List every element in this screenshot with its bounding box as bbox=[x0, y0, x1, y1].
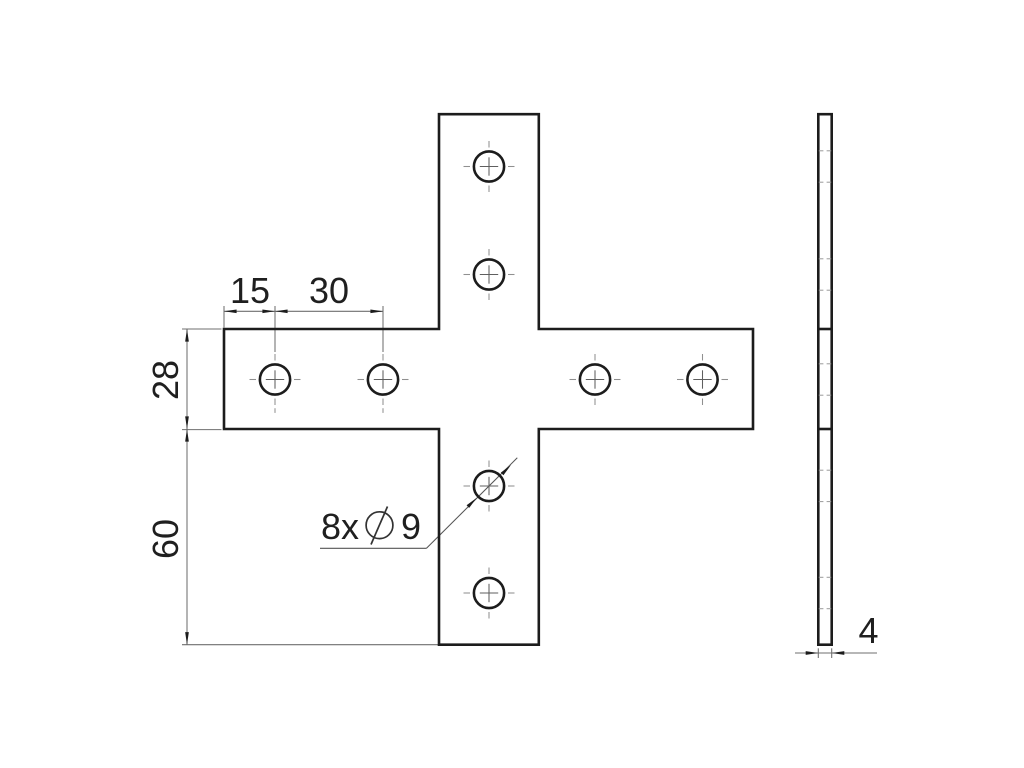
svg-text:60: 60 bbox=[145, 519, 186, 559]
svg-text:4: 4 bbox=[858, 610, 878, 651]
svg-text:9: 9 bbox=[401, 506, 421, 547]
svg-text:28: 28 bbox=[145, 360, 186, 400]
svg-text:15: 15 bbox=[230, 270, 270, 311]
svg-text:30: 30 bbox=[309, 270, 349, 311]
svg-text:8x: 8x bbox=[321, 506, 359, 547]
